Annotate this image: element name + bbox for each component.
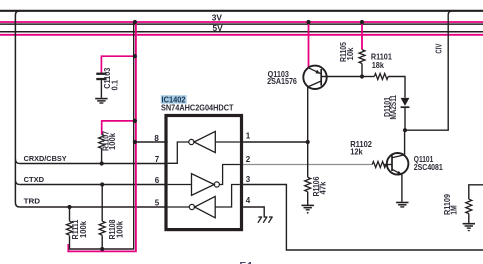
resistor R1109 — [466, 199, 472, 223]
transistor Q1101 — [384, 153, 408, 175]
ground under R1106 — [302, 205, 314, 213]
svg-text:SN74AHC2G04HDCT: SN74AHC2G04HDCT — [161, 104, 234, 113]
node R1105 value label — [339, 41, 355, 62]
wire capacitor C1103 feed (magenta) — [101, 56, 135, 73]
svg-text:12k: 12k — [350, 146, 363, 156]
node R1106 value label — [312, 176, 328, 197]
svg-text:5: 5 — [155, 199, 160, 208]
node D1101 value label — [383, 95, 398, 120]
wire pin 4 to chassis ground — [243, 207, 264, 217]
transistor Q1103 — [303, 66, 326, 89]
svg-text:6: 6 — [155, 176, 160, 185]
svg-text:2SA1576: 2SA1576 — [267, 76, 297, 86]
op-amp U1 inverter B (middle, points right) — [168, 165, 240, 196]
wire CIV net — [405, 11, 452, 130]
wire pin 2 to R1102 (gray) — [243, 164, 372, 166]
node R1111 value label — [71, 219, 88, 240]
resistor R1102 — [372, 162, 386, 168]
svg-text:CIV: CIV — [435, 43, 444, 54]
wire Q1103 emitter feed (magenta) — [308, 22, 310, 68]
ground under R1109 — [463, 224, 475, 231]
wire R1109 feed from right edge — [469, 185, 483, 199]
svg-text:CRXD/CBSY: CRXD/CBSY — [24, 154, 67, 163]
op-amp U1 IC1402 box — [166, 116, 242, 230]
wire top bus — [0, 10, 483, 12]
wire R1105 feed (magenta) — [361, 22, 363, 50]
wire CTXD to pin 6 — [20, 184, 168, 186]
node R1109 value label — [443, 193, 459, 215]
wire magenta vertical net x135 — [68, 22, 136, 251]
wire black pair of vertical net x134 — [70, 22, 134, 249]
node R1101 value label — [371, 51, 392, 70]
op-amp U1 inverter A (top, points left) — [189, 131, 240, 152]
svg-text:TRD: TRD — [24, 197, 41, 206]
resistor R1105 — [359, 50, 365, 77]
wire 3V rail (magenta) — [0, 21, 483, 23]
node C1103 value label — [103, 67, 120, 90]
node IC1402 highlighted label — [161, 94, 187, 104]
wire Q1103 base — [321, 76, 362, 78]
svg-text:100k: 100k — [108, 132, 117, 150]
wire TRD to pin 5 — [20, 206, 168, 208]
node Q1103 label — [267, 69, 297, 86]
svg-text:47k: 47k — [319, 181, 328, 195]
svg-text:4: 4 — [246, 196, 251, 205]
node junction dots — [67, 20, 407, 251]
svg-text:1M: 1M — [450, 205, 459, 215]
resistor R1111 — [67, 207, 73, 235]
svg-text:10k: 10k — [346, 47, 355, 61]
wire R1107 feed (magenta) — [102, 121, 136, 135]
wire Q1101 emitter to ground — [401, 175, 403, 202]
wire 5V rail black pair — [0, 31, 483, 33]
svg-text:8: 8 — [154, 134, 159, 143]
op-amp U1 inverter C (bottom, points left) — [168, 185, 240, 218]
svg-text:3: 3 — [246, 175, 251, 184]
node R1107 value label — [102, 131, 117, 151]
wire CRXD/CBSY to pin 7 — [20, 163, 168, 165]
svg-text:CTXD: CTXD — [24, 175, 45, 184]
wire pin 7 internal jog — [168, 142, 189, 163]
resistor R1101 — [362, 74, 405, 98]
wire 3V rail black pair — [0, 23, 483, 25]
resistor R1106 — [305, 177, 311, 204]
wire 5V rail (magenta) — [0, 34, 483, 36]
ground under Q1101 — [396, 203, 408, 207]
svg-text:100k: 100k — [79, 220, 88, 238]
wire branch curve CTXD — [15, 180, 19, 184]
svg-text:3V: 3V — [212, 13, 222, 23]
wire Q1103 collector down to R1106 — [307, 87, 309, 177]
ground chassis symbol at pin 4 — [258, 217, 273, 223]
svg-text:7: 7 — [155, 155, 160, 164]
wire pin 8 supply feed — [134, 141, 168, 143]
svg-text:100k: 100k — [115, 220, 124, 238]
resistor R1108 — [99, 185, 105, 250]
node R1108 value label — [108, 219, 125, 240]
svg-text:E4: E4 — [240, 260, 253, 264]
wire pin 3 long route — [243, 185, 483, 251]
svg-text:0.1: 0.1 — [111, 79, 120, 90]
svg-text:MA2S11: MA2S11 — [389, 95, 398, 120]
wire branch curve CRXD — [15, 159, 19, 163]
wire Q1101 collector up to D1101 — [404, 130, 406, 155]
resistor R1107 — [99, 135, 105, 164]
svg-text:5V: 5V — [213, 23, 223, 33]
svg-text:2SC4081: 2SC4081 — [414, 162, 443, 172]
svg-text:2: 2 — [246, 155, 251, 164]
svg-text:18k: 18k — [372, 60, 385, 70]
node R1102 value label — [350, 139, 372, 156]
svg-text:1: 1 — [246, 131, 251, 140]
node Q1101 label — [414, 154, 443, 172]
diode D1101 — [401, 98, 410, 130]
capacitor C1103 — [96, 73, 106, 98]
wire pin 1 to node — [243, 141, 308, 143]
wire left trunk — [15, 11, 20, 207]
ground under C1103 — [95, 99, 107, 103]
